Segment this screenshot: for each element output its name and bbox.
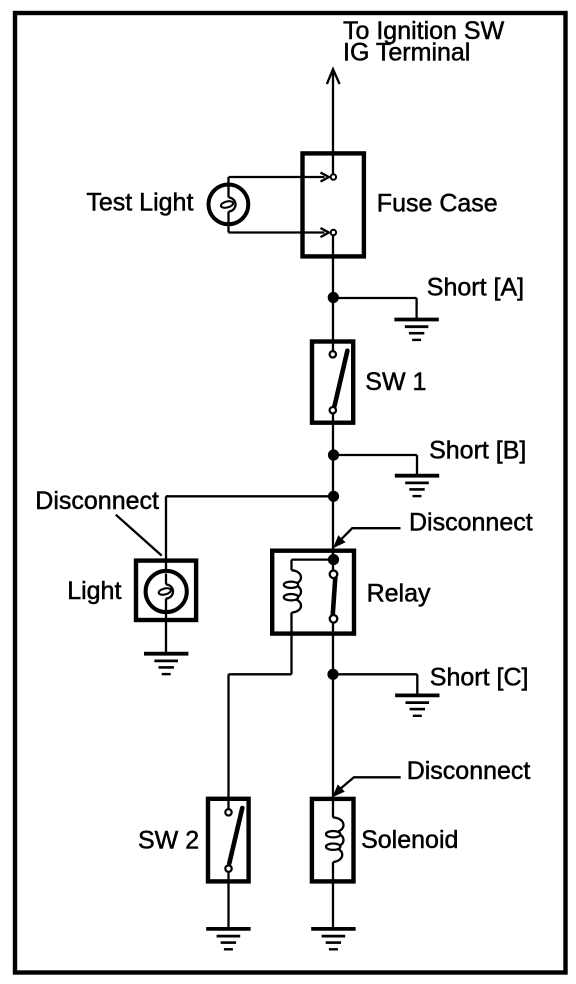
svg-text:Short [A]: Short [A] [427, 274, 524, 302]
svg-text:Short [B]: Short [B] [429, 437, 526, 465]
svg-text:Solenoid: Solenoid [361, 826, 458, 854]
svg-text:SW 2: SW 2 [138, 827, 199, 855]
svg-text:IG Terminal: IG Terminal [343, 38, 470, 66]
svg-text:Relay: Relay [367, 579, 431, 607]
svg-text:Disconnect: Disconnect [407, 757, 531, 785]
svg-text:Fuse Case: Fuse Case [377, 190, 498, 218]
svg-text:SW 1: SW 1 [365, 368, 426, 396]
svg-text:Disconnect: Disconnect [35, 487, 159, 515]
svg-text:Light: Light [67, 577, 121, 605]
svg-text:Short [C]: Short [C] [430, 663, 529, 691]
svg-text:Disconnect: Disconnect [409, 509, 533, 537]
svg-text:Test Light: Test Light [86, 189, 193, 217]
